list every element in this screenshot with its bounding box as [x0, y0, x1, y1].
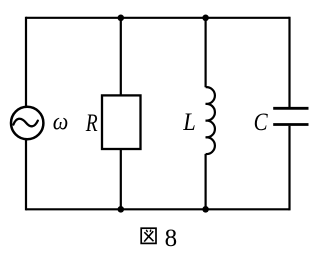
- svg-text:ω: ω: [53, 108, 69, 135]
- wire bottom (return node): [26, 208, 290, 210]
- svg-text:L: L: [182, 109, 195, 136]
- node junction top-right (L branch / top wire): [202, 14, 209, 21]
- wire right lower (capacitor C to bottom wire): [288, 126, 290, 211]
- svg-text:C: C: [254, 107, 269, 135]
- wire top (node between source, R, L, C): [26, 17, 290, 19]
- ac source (sine generator): [11, 107, 43, 139]
- svg-text:8: 8: [165, 225, 178, 252]
- wire R branch lower: [120, 149, 122, 209]
- capacitor C (two plates): [273, 108, 308, 124]
- node junction bottom-left (R branch / bottom wire): [118, 206, 125, 213]
- inductor L (coil, 4 arcs): [206, 87, 215, 154]
- wire left lower (source to bottom wire): [25, 140, 27, 211]
- node junction top-left (R branch / top wire): [118, 14, 125, 21]
- wire left upper (top wire to source): [25, 17, 27, 107]
- resistor R (box): [102, 95, 141, 149]
- svg-text:R: R: [85, 109, 98, 137]
- wire L branch upper: [205, 18, 207, 87]
- node junction bottom-right (L branch / bottom wire): [202, 206, 209, 213]
- wire L branch lower: [205, 154, 207, 209]
- wire right upper (top wire to capacitor C): [288, 17, 290, 107]
- caption figure label: kanji ZU (figure) drawn as strokes: [141, 228, 156, 243]
- wire R branch upper: [120, 18, 122, 96]
